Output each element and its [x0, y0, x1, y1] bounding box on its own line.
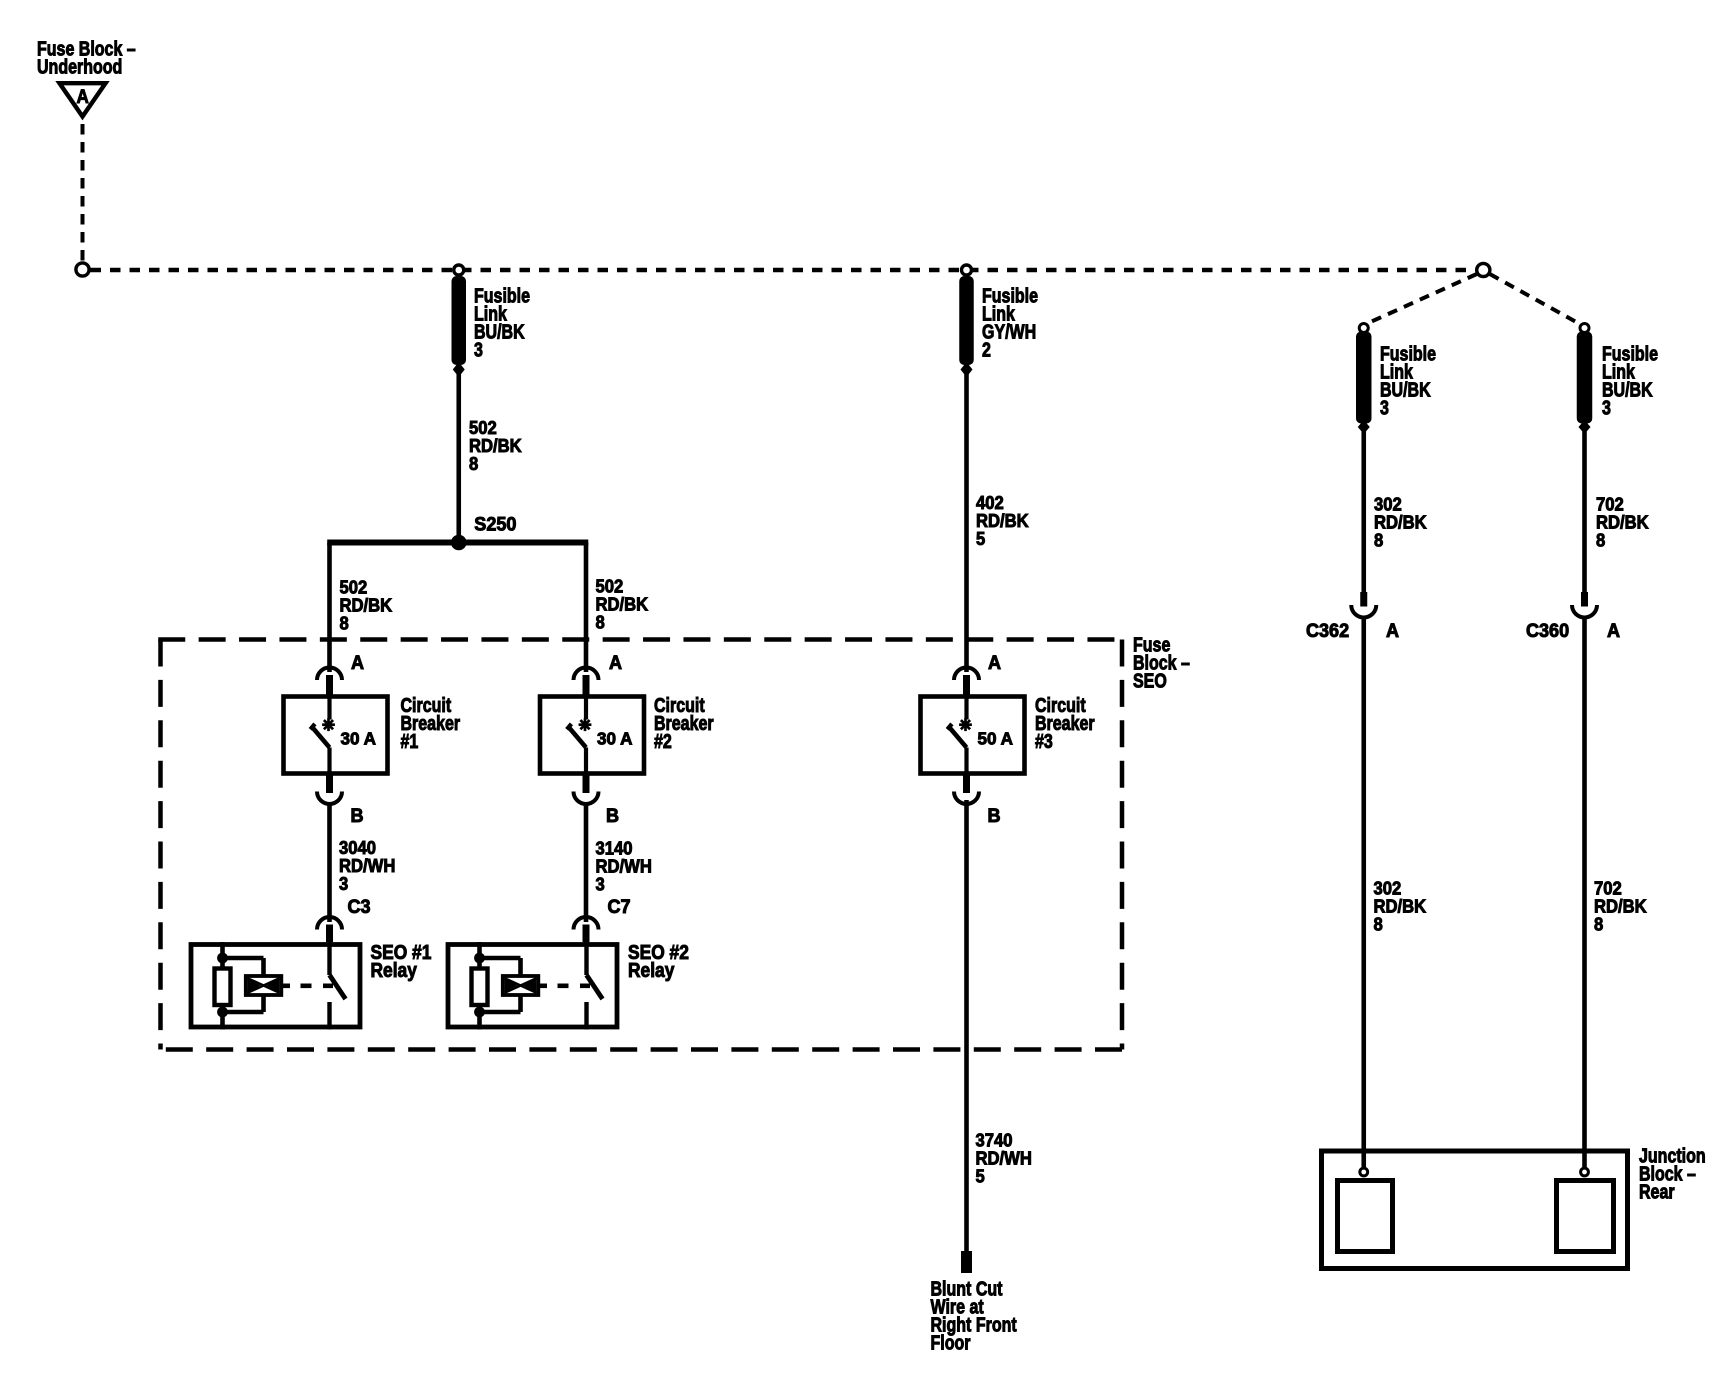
relay SEO #1 Relay coil-to-switch dashed actuator link [281, 983, 290, 988]
svg-text:8: 8 [1374, 529, 1383, 550]
circuit breaker 2 box [540, 697, 644, 774]
relay SEO #1 Relay coil [223, 956, 264, 961]
svg-text:8: 8 [1596, 529, 1605, 550]
svg-text:A: A [609, 652, 622, 674]
connector C3 at SEO #1 relay [317, 917, 342, 930]
node open circle at right end of battery feed bus [1477, 263, 1490, 276]
pin A connector at circuit breaker 2 [574, 668, 599, 681]
svg-text:Rear: Rear [1639, 1181, 1675, 1203]
svg-text:Underhood: Underhood [37, 56, 122, 78]
wire branch down to circuit breaker 1 [327, 543, 332, 673]
node open circle atop fusible link (C360 column) [1580, 324, 1589, 333]
svg-text:A: A [77, 86, 89, 107]
relay SEO #1 Relay box [191, 945, 360, 1028]
svg-text:8: 8 [1374, 913, 1383, 934]
svg-text:C7: C7 [608, 896, 631, 918]
circuit breaker 3 box [921, 697, 1025, 774]
wire 3140 RD/WH breaker 2 to SEO #2 relay [584, 803, 589, 922]
svg-text:3: 3 [596, 873, 605, 894]
svg-text:A: A [988, 652, 1001, 674]
svg-text:B: B [606, 805, 619, 827]
svg-text:A: A [1607, 620, 1620, 642]
relay SEO #1 Relay coil suppression resistor branch [220, 942, 225, 1030]
wire 702 RD/BK fusible link to C360 [1582, 431, 1587, 592]
wire 302 RD/BK C362 to junction block [1361, 617, 1366, 1168]
svg-text:C362: C362 [1306, 620, 1349, 642]
wire 302 RD/BK fusible link to C362 [1361, 431, 1366, 592]
wire 3740 RD/WH from breaker 3 through fuse block edge [964, 800, 969, 1251]
svg-text:30 A: 30 A [341, 728, 377, 749]
svg-text:50 A: 50 A [978, 728, 1014, 749]
svg-text:3: 3 [339, 873, 348, 894]
junction block terminal cavity (left) [1338, 1181, 1393, 1252]
node open circle atop fusible link (C362 column) [1359, 324, 1368, 333]
junction dots on relay SEO #2 Relay coil branch [474, 953, 485, 964]
svg-text:A: A [351, 652, 364, 674]
svg-text:C360: C360 [1526, 620, 1569, 642]
pin B connector at circuit breaker 2 [583, 776, 590, 794]
relay SEO #2 Relay box [448, 945, 617, 1028]
svg-text:30 A: 30 A [597, 728, 633, 749]
wire 3040 RD/WH breaker 1 to SEO #1 relay [327, 803, 332, 922]
svg-text:3: 3 [1602, 397, 1611, 419]
svg-text:B: B [988, 805, 1001, 827]
svg-text:3: 3 [1380, 397, 1389, 419]
fuse block SEO dashed enclosure [158, 637, 1122, 642]
fusible link BU/BK 3 (C362 column) [1356, 332, 1372, 424]
fusible link BU/BK 3 [452, 276, 467, 365]
svg-text:C3: C3 [348, 896, 371, 918]
fusible link BU/BK 3 (C360 column) [1577, 332, 1593, 424]
node open circle at left end of battery feed bus [76, 263, 89, 276]
svg-text:SEO: SEO [1133, 670, 1167, 692]
circuit breaker 1 internal contact and blade [327, 696, 331, 720]
fusible link GY/WH 2 [959, 276, 974, 365]
relay SEO #2 Relay switch [584, 942, 588, 975]
svg-text:#3: #3 [1035, 730, 1053, 752]
circuit breaker 2 internal contact and blade [584, 696, 588, 720]
wire S250 bus to breaker 1 and breaker 2 branches [327, 540, 588, 546]
node terminal circle C360 wire at junction block [1581, 1168, 1589, 1176]
svg-text:8: 8 [469, 453, 478, 474]
pin A connector at circuit breaker 1 [317, 668, 342, 681]
pin B connector at circuit breaker 1 [326, 776, 333, 794]
svg-text:8: 8 [1594, 913, 1603, 934]
svg-text:Relay: Relay [628, 959, 675, 981]
splice S250 [451, 535, 467, 551]
relay SEO #2 Relay coil suppression resistor branch [477, 942, 482, 1030]
junction block rear outer box [1322, 1151, 1628, 1269]
pin A connector at circuit breaker 3 [954, 668, 979, 681]
svg-text:8: 8 [340, 612, 349, 633]
node open circle bus tap at fusible link GY/WH [962, 265, 972, 275]
relay SEO #1 Relay switch [327, 942, 331, 975]
off-page connector triangle A (Fuse Block - Underhood) [60, 83, 106, 116]
node terminal circle C362 wire at junction block [1360, 1168, 1368, 1176]
svg-text:2: 2 [982, 339, 991, 361]
circuit breaker 3 internal contact and blade [964, 696, 968, 720]
wire 502 RD/BK from fusible link to S250 [456, 374, 461, 543]
svg-text:#1: #1 [401, 730, 419, 752]
wire 402 RD/BK to circuit breaker 3 [964, 374, 969, 672]
blunt cut wire terminal [961, 1251, 972, 1273]
junction block terminal cavity (right) [1557, 1181, 1614, 1252]
svg-text:5: 5 [976, 528, 985, 549]
svg-text:#2: #2 [654, 730, 672, 752]
svg-text:5: 5 [976, 1165, 985, 1186]
connector C362 pin A [1360, 592, 1367, 607]
relay SEO #2 Relay coil [480, 956, 521, 961]
svg-text:S250: S250 [474, 513, 516, 535]
svg-text:B: B [351, 805, 364, 827]
node open circle bus tap at fusible link BU/BK [454, 265, 464, 275]
circuit breaker 1 box [284, 697, 388, 774]
svg-text:Floor: Floor [931, 1332, 971, 1354]
svg-text:A: A [1386, 620, 1399, 642]
wire 702 RD/BK C360 to junction block [1582, 617, 1587, 1168]
svg-text:3: 3 [474, 339, 483, 361]
relay SEO #2 Relay coil-to-switch dashed actuator link [538, 983, 547, 988]
connector C360 pin A [1581, 592, 1588, 607]
wire dashed drop to fusible link at C362 [1369, 274, 1477, 323]
wire dotted battery feed bus [91, 268, 1475, 273]
svg-text:Relay: Relay [371, 959, 418, 981]
connector C7 at SEO #2 relay [574, 917, 599, 930]
wire branch down to circuit breaker 2 [584, 543, 589, 673]
wire dashed drop from triangle A [81, 124, 85, 262]
svg-text:8: 8 [596, 611, 605, 632]
wire dashed drop to fusible link at C360 [1490, 274, 1580, 324]
pin B connector at circuit breaker 3 [963, 776, 970, 794]
junction dots on relay SEO #1 Relay coil branch [217, 953, 228, 964]
